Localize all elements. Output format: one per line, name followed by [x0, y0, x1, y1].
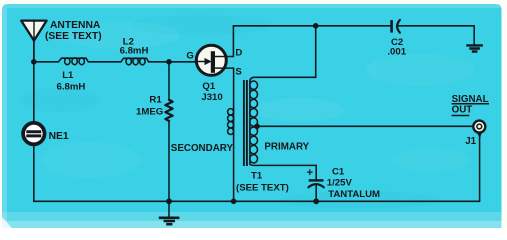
node: antenna junction — [31, 59, 37, 65]
node: primary tap — [254, 124, 260, 130]
svg-text:J310: J310 — [201, 92, 222, 103]
svg-text:Q1: Q1 — [202, 81, 215, 92]
capacitor C2 — [390, 20, 393, 32]
svg-text:L1: L1 — [62, 70, 74, 81]
node: top rail junction — [313, 23, 319, 29]
transformer T1 secondary winding — [228, 109, 234, 115]
svg-text:6.8mH: 6.8mH — [120, 46, 149, 57]
svg-text:NE1: NE1 — [49, 131, 69, 142]
wire: left vertical drop to NE1 and bottom rail — [33, 62, 35, 202]
transistor Q1 — [196, 45, 226, 75]
node: secondary rail junction — [231, 199, 237, 205]
capacitor C1 — [309, 179, 324, 181]
node: C1 rail junction — [313, 198, 319, 204]
svg-text:+: + — [307, 167, 313, 179]
wire: antenna feed line — [33, 22, 35, 62]
svg-text:T1: T1 — [251, 171, 263, 182]
wire: bottom rail — [34, 200, 480, 202]
svg-text:G: G — [186, 51, 193, 62]
wire: primary tap to J1 — [257, 125, 473, 127]
transformer T1 primary winding — [249, 82, 251, 165]
wire: secondary bottom to rail — [233, 135, 235, 202]
wire: J1 down to rail — [479, 137, 481, 202]
svg-text:TANTALUM: TANTALUM — [328, 189, 380, 200]
svg-text:SECONDARY: SECONDARY — [171, 143, 234, 154]
wire: R1 branch vertical — [168, 62, 170, 202]
svg-text:ANTENNA: ANTENNA — [50, 20, 101, 31]
svg-text:(SEE TEXT): (SEE TEXT) — [45, 31, 102, 42]
svg-text:1MEG: 1MEG — [136, 107, 163, 118]
svg-text:PRIMARY: PRIMARY — [264, 141, 309, 152]
antenna ANT — [21, 21, 46, 41]
svg-text:S: S — [235, 66, 242, 77]
svg-text:1/25V: 1/25V — [327, 178, 353, 189]
ground (top right) — [473, 26, 475, 45]
svg-text:C1: C1 — [332, 167, 345, 178]
wire: top rail — [233, 25, 474, 27]
svg-text:.001: .001 — [387, 46, 406, 57]
ground (bottom center) — [168, 201, 170, 217]
wire: source vertical into secondary — [233, 68, 235, 109]
wire: drain vertical to top rail — [232, 26, 234, 57]
node: R1 ground junction — [166, 198, 172, 204]
transformer T1 core — [244, 80, 247, 166]
svg-text:R1: R1 — [149, 95, 162, 106]
wire: primary bottom lead to C1 — [250, 164, 316, 179]
neon lamp NE1 — [23, 123, 44, 144]
svg-text:6.8mH: 6.8mH — [57, 81, 86, 92]
svg-text:D: D — [235, 48, 242, 59]
svg-text:(SEE TEXT): (SEE TEXT) — [236, 183, 289, 194]
svg-text:J1: J1 — [465, 136, 476, 147]
inductor L1 — [59, 58, 89, 62]
svg-text:OUT: OUT — [452, 104, 473, 115]
node: gate junction — [166, 59, 172, 65]
jack J1 — [473, 121, 485, 133]
resistor R1 — [165, 100, 172, 121]
wire: main horizontal antenna wire — [34, 61, 197, 63]
inductor L2 — [121, 58, 149, 62]
wire: primary top lead to top rail — [250, 26, 316, 82]
wire: C1 bottom to rail — [315, 185, 317, 201]
